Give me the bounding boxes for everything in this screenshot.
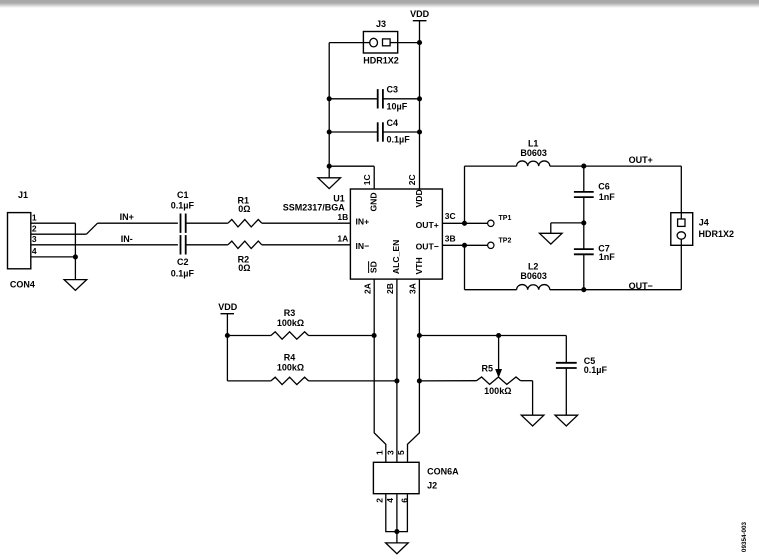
potentiometer R5 wiper arrow bbox=[498, 336, 500, 370]
junction R5 wiper bbox=[496, 333, 501, 338]
test point TP2 bbox=[488, 242, 494, 248]
wire VDD to R3 bbox=[227, 335, 271, 337]
svg-text:1: 1 bbox=[374, 450, 384, 455]
svg-text:HDR1X2: HDR1X2 bbox=[363, 56, 399, 66]
wire OUT- rail right bbox=[550, 289, 682, 291]
inductor L2 bbox=[517, 285, 550, 290]
wire J1 pin2 bbox=[31, 233, 87, 235]
capacitor C2 bbox=[180, 235, 182, 254]
svg-text:0Ω: 0Ω bbox=[238, 204, 250, 214]
junction L2-C7 bbox=[581, 287, 586, 292]
wire J1 pin4 bbox=[31, 256, 76, 258]
svg-text:4: 4 bbox=[32, 246, 37, 256]
svg-text:TP2: TP2 bbox=[499, 237, 512, 244]
svg-text:OUT−: OUT− bbox=[629, 281, 653, 291]
wire to C5 bbox=[565, 336, 567, 363]
wire OUT+ rail right bbox=[550, 165, 682, 167]
svg-text:1: 1 bbox=[32, 212, 37, 222]
op-amp U1 body bbox=[350, 189, 442, 279]
junction C3 right bbox=[417, 96, 422, 101]
wire C7 to OUT- rail bbox=[583, 255, 585, 290]
wire J2 pin4 bbox=[396, 494, 398, 543]
svg-text:IN−: IN− bbox=[356, 241, 370, 251]
wire U1 3B to TP2 bbox=[442, 244, 487, 246]
svg-text:J3: J3 bbox=[376, 19, 386, 29]
junction L1-C6 bbox=[581, 164, 586, 169]
junction C3 left bbox=[327, 96, 332, 101]
wire VDD to R4 bbox=[227, 380, 271, 382]
capacitor C4 bbox=[377, 122, 379, 141]
svg-text:1A: 1A bbox=[337, 234, 348, 244]
wire mid junction to ground stub bbox=[551, 222, 584, 224]
wire OUT+ rail to J4 bbox=[680, 166, 682, 213]
capacitor C5 bbox=[556, 362, 577, 364]
wire J3 pin2 to VDD rail bbox=[398, 42, 420, 44]
wire U1 3C to TP1 bbox=[442, 222, 487, 224]
svg-text:4: 4 bbox=[385, 498, 395, 503]
svg-text:10µF: 10µF bbox=[387, 101, 408, 111]
wire left rail vertical (J3 to ground) bbox=[328, 43, 330, 178]
svg-text:VDD: VDD bbox=[218, 302, 238, 312]
capacitor C6 bbox=[574, 191, 594, 193]
svg-text:0Ω: 0Ω bbox=[238, 263, 250, 273]
resistor R2 bbox=[228, 241, 262, 248]
wire J1 pin1 to pin4 (vertical) bbox=[74, 223, 76, 257]
wire J2 pin2 bbox=[386, 494, 408, 532]
ground (below J1) bbox=[64, 280, 87, 291]
svg-text:HDR1X2: HDR1X2 bbox=[699, 229, 735, 239]
connector J2 body bbox=[373, 462, 419, 493]
svg-text:B0603: B0603 bbox=[520, 148, 547, 158]
svg-text:C6: C6 bbox=[598, 182, 610, 192]
svg-text:0.1µF: 0.1µF bbox=[387, 135, 411, 145]
svg-text:J4: J4 bbox=[699, 217, 709, 227]
junction C4 left bbox=[327, 129, 332, 134]
wire R3 to SD net bbox=[309, 335, 375, 337]
ground (C5) bbox=[555, 415, 578, 426]
wire C6 to mid junction bbox=[583, 197, 585, 223]
wire R1 to U1 pin 1B bbox=[262, 222, 351, 224]
junction J1 ground bbox=[73, 254, 78, 259]
svg-text:VDD: VDD bbox=[414, 189, 424, 207]
svg-text:0.1µF: 0.1µF bbox=[171, 268, 195, 278]
wire R5 to ground bbox=[521, 380, 533, 382]
junction J3-VDD bbox=[417, 40, 422, 45]
svg-text:3C: 3C bbox=[445, 211, 456, 221]
svg-text:R4: R4 bbox=[284, 353, 296, 363]
svg-text:L2: L2 bbox=[528, 261, 539, 271]
svg-text:C3: C3 bbox=[387, 85, 399, 95]
wire to ground (J1) bbox=[74, 257, 76, 280]
wire OUT- rail left bbox=[465, 289, 517, 291]
resistor R3 bbox=[271, 332, 309, 339]
wire J1 pin3 / IN- bbox=[31, 244, 178, 246]
connector J3 bbox=[363, 32, 397, 54]
svg-text:J1: J1 bbox=[18, 190, 28, 200]
wire IN+ (to C1) bbox=[98, 222, 178, 224]
ground (top left of U1) bbox=[318, 178, 341, 189]
svg-text:R3: R3 bbox=[284, 308, 296, 318]
svg-text:L1: L1 bbox=[528, 139, 539, 149]
svg-text:2: 2 bbox=[32, 224, 37, 234]
svg-text:0.1µF: 0.1µF bbox=[584, 365, 608, 375]
wire SD net (U1 2A to J2 pin1) bbox=[374, 279, 386, 462]
svg-text:3: 3 bbox=[386, 450, 396, 455]
ground (R5) bbox=[521, 415, 544, 426]
svg-text:VDD: VDD bbox=[410, 9, 430, 19]
wire J1 pin1 bbox=[31, 222, 76, 224]
wire J3 pin1 to left rail bbox=[329, 42, 363, 44]
junction C6-C7 mid bbox=[581, 220, 586, 225]
capacitor C7 bbox=[574, 248, 594, 250]
junction GND branch bbox=[327, 164, 332, 169]
wire C6 branch bbox=[583, 166, 585, 192]
junction 3B bbox=[462, 243, 467, 248]
wire VTH to R5 body bbox=[419, 380, 476, 382]
svg-text:3A: 3A bbox=[408, 283, 418, 294]
capacitor C3 bbox=[377, 89, 379, 108]
svg-text:OUT−: OUT− bbox=[416, 242, 439, 252]
svg-text:1C: 1C bbox=[362, 174, 372, 185]
svg-text:2: 2 bbox=[374, 498, 384, 503]
wire ALC_EN net (U1 2B to J2 pin3) bbox=[396, 279, 398, 462]
svg-text:09354-003: 09354-003 bbox=[741, 521, 748, 552]
ground (J2) bbox=[386, 543, 409, 554]
junction R4-ALC_EN bbox=[394, 378, 399, 383]
resistor R1 bbox=[228, 220, 262, 227]
svg-text:2C: 2C bbox=[407, 174, 417, 185]
svg-text:1nF: 1nF bbox=[599, 252, 616, 262]
junction 3C bbox=[462, 221, 467, 226]
wire OUT+ rail left bbox=[465, 165, 517, 167]
svg-text:IN+: IN+ bbox=[120, 212, 134, 222]
svg-text:OUT+: OUT+ bbox=[416, 220, 439, 230]
wire C2 to R2 bbox=[186, 244, 228, 246]
wire C5 to ground bbox=[565, 368, 567, 415]
svg-text:1B: 1B bbox=[337, 212, 348, 222]
svg-text:IN-: IN- bbox=[121, 234, 133, 244]
svg-text:IN+: IN+ bbox=[356, 217, 370, 227]
junction VTH bottom line bbox=[417, 378, 422, 383]
capacitor C1 bbox=[180, 214, 182, 233]
junction R3-SD bbox=[372, 333, 377, 338]
wire branch to U1 pin 1C bbox=[329, 165, 374, 167]
wire R4 to ALC_EN net bbox=[309, 380, 397, 382]
svg-text:ALC_EN: ALC_EN bbox=[391, 240, 401, 274]
svg-text:B0603: B0603 bbox=[520, 271, 547, 281]
svg-text:R5: R5 bbox=[482, 363, 494, 373]
wire R2 to U1 pin 1A bbox=[262, 244, 351, 246]
wire C1 to R1 bbox=[186, 222, 228, 224]
wire mid junction to C7 bbox=[583, 223, 585, 249]
inductor L1 bbox=[517, 161, 550, 166]
svg-text:TP1: TP1 bbox=[499, 215, 512, 222]
svg-text:C4: C4 bbox=[387, 118, 399, 128]
svg-text:1nF: 1nF bbox=[599, 192, 616, 202]
svg-text:OUT+: OUT+ bbox=[629, 155, 653, 165]
svg-text:100kΩ: 100kΩ bbox=[484, 386, 511, 396]
wire VTH net (U1 3A to J2 pin5) bbox=[408, 279, 420, 462]
svg-text:SD: SD bbox=[369, 261, 379, 273]
junction J2 ground bbox=[394, 529, 399, 534]
svg-text:100kΩ: 100kΩ bbox=[277, 318, 304, 328]
connector J1 bbox=[8, 213, 31, 269]
svg-text:GND: GND bbox=[369, 192, 379, 211]
svg-text:100kΩ: 100kΩ bbox=[277, 362, 304, 372]
junction VTH top line bbox=[417, 333, 422, 338]
svg-text:CON6A: CON6A bbox=[427, 467, 459, 477]
wire VDD to R3/R4 bbox=[226, 314, 228, 381]
wire jog pin2 to IN+ bbox=[86, 223, 97, 234]
svg-text:C2: C2 bbox=[177, 257, 189, 267]
svg-text:CON4: CON4 bbox=[10, 280, 35, 290]
test point TP1 bbox=[488, 220, 494, 226]
svg-text:5: 5 bbox=[396, 450, 406, 455]
wire 3B down to OUT- rail bbox=[464, 245, 466, 289]
wire J4 to OUT- rail bbox=[680, 245, 682, 289]
svg-text:VTH: VTH bbox=[414, 257, 424, 274]
potentiometer R5 bbox=[477, 377, 521, 384]
svg-text:SSM2317/BGA: SSM2317/BGA bbox=[283, 202, 346, 212]
svg-text:0.1µF: 0.1µF bbox=[171, 201, 195, 211]
ground (C6/C7 mid) bbox=[540, 233, 563, 244]
wire VTH to R5 wiper/C5 bbox=[419, 335, 566, 337]
resistor R4 bbox=[271, 377, 309, 384]
wire VDD vertical (VDD bar to U1 pin 2C) bbox=[419, 21, 421, 189]
svg-text:2A: 2A bbox=[362, 283, 372, 294]
junction C4 right bbox=[417, 129, 422, 134]
svg-text:2B: 2B bbox=[385, 283, 395, 294]
wire 3C up to OUT+ rail bbox=[464, 166, 466, 223]
svg-text:3: 3 bbox=[32, 234, 37, 244]
svg-text:J2: J2 bbox=[427, 480, 437, 490]
connector J4 bbox=[671, 213, 693, 246]
svg-text:3B: 3B bbox=[445, 233, 456, 243]
svg-text:C1: C1 bbox=[177, 190, 189, 200]
junction VDD-R3 bbox=[225, 333, 230, 338]
